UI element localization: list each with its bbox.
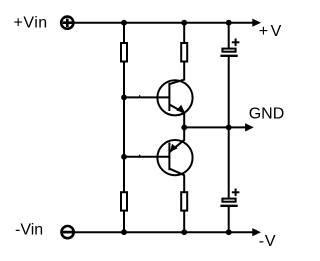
svg-text:-V: -V bbox=[259, 233, 277, 250]
wire top rail bbox=[74, 22, 254, 24]
wire cap line top segment bbox=[228, 23, 230, 49]
capacitor C1 plus mark bbox=[232, 39, 240, 47]
wire Q2 emitter from GND node bbox=[183, 127, 185, 140]
transistor Q2 (PNP) bbox=[157, 140, 192, 176]
node junction bottom rail / left line bbox=[121, 229, 127, 235]
node junction top rail / left line bbox=[121, 20, 127, 26]
wire Q1 emitter to GND node bbox=[183, 113, 185, 128]
svg-text:+V: +V bbox=[259, 23, 284, 40]
wire right line bottom segment bbox=[183, 211, 185, 233]
resistor left top bbox=[121, 43, 127, 62]
arrow -V bbox=[252, 228, 261, 236]
wire left line lower segment bbox=[123, 211, 125, 233]
node Q1 base pin tick bbox=[139, 95, 141, 97]
node junction Q1 base tap bbox=[121, 95, 127, 101]
svg-text:GND: GND bbox=[249, 106, 285, 123]
capacitor C2 (polarized) bbox=[220, 199, 237, 206]
arrow GND bbox=[245, 123, 254, 131]
terminal -Vin bbox=[62, 226, 74, 238]
wire GND rail bbox=[184, 126, 246, 128]
wire Q2 base lead bbox=[124, 156, 169, 158]
node junction GND / cap line bbox=[226, 125, 232, 131]
transistor Q1 (NPN) bbox=[157, 80, 192, 116]
capacitor C2 plus mark bbox=[232, 189, 240, 197]
wire bottom rail bbox=[74, 231, 253, 233]
node junction top rail / right line bbox=[181, 20, 187, 26]
wire cap line middle segment bbox=[228, 57, 230, 199]
wire Q2 collector to resistor bbox=[183, 175, 185, 192]
wire left line upper segment bbox=[123, 23, 125, 43]
wire right line top segment bbox=[183, 23, 185, 43]
terminal +Vin bbox=[61, 17, 73, 29]
arrow +V bbox=[252, 19, 261, 27]
node junction Q2 base tap bbox=[121, 154, 127, 160]
node junction bottom rail / cap line bbox=[226, 229, 232, 235]
wire Q1 base lead bbox=[124, 96, 169, 98]
resistor right bottom bbox=[181, 192, 187, 210]
svg-text:-Vin: -Vin bbox=[15, 222, 43, 239]
wire right line resistor to Q1 collector bbox=[183, 62, 185, 81]
wire cap line bottom segment bbox=[228, 207, 230, 232]
wire left line middle segment bbox=[123, 62, 125, 193]
svg-text:+Vin: +Vin bbox=[14, 15, 48, 32]
node junction top rail / cap line bbox=[226, 20, 232, 26]
resistor left bottom bbox=[121, 192, 127, 210]
node junction GND / right line bbox=[181, 125, 187, 131]
resistor right top bbox=[181, 43, 187, 62]
node junction bottom rail / right line bbox=[181, 229, 187, 235]
node Q2 base pin tick bbox=[139, 155, 141, 157]
capacitor C1 (polarized) bbox=[220, 49, 237, 56]
